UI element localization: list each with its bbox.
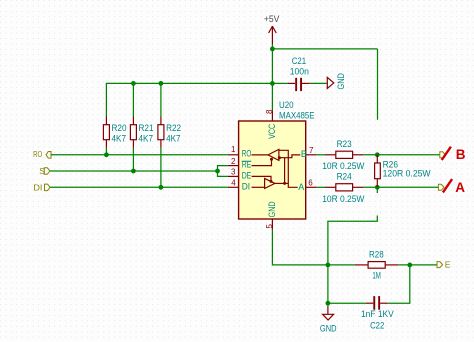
wire E line left segment	[328, 264, 355, 266]
node junction DI R22	[159, 185, 164, 190]
svg-text:VCC: VCC	[267, 124, 277, 139]
wire stub below A junction	[376, 187, 378, 193]
U20 internal B net	[278, 155, 300, 184]
svg-text:C22: C22	[370, 320, 384, 331]
svg-text:R24: R24	[337, 170, 352, 181]
svg-text:DI: DI	[242, 182, 250, 192]
svg-text:120R 0.25W: 120R 0.25W	[383, 167, 431, 178]
U20 internal receiver triangle	[252, 149, 279, 160]
wire S	[50, 170, 218, 172]
hier label DI	[33, 183, 50, 193]
hier label B	[440, 147, 466, 162]
pin 3 DE	[228, 168, 252, 181]
svg-text:U20: U20	[279, 99, 294, 110]
U20 internal RE enable	[252, 158, 274, 166]
svg-text:DE: DE	[242, 171, 252, 181]
svg-text:4K7: 4K7	[166, 133, 181, 144]
wire VCC rail to pullup resistors	[106, 83, 272, 116]
node junction E left	[326, 263, 331, 268]
node junction +5V	[270, 47, 275, 52]
resistor R26	[375, 155, 431, 188]
svg-text:+5V: +5V	[264, 14, 280, 24]
node junction rail R21	[131, 81, 136, 86]
wire C21 right to GND	[309, 82, 327, 84]
wire R21 top stem	[132, 83, 134, 116]
node junction VCC C21	[270, 81, 275, 86]
wire R20 bottom	[105, 148, 107, 155]
svg-text:GND: GND	[320, 322, 337, 333]
svg-text:1nF 1KV: 1nF 1KV	[361, 308, 394, 319]
svg-text:8: 8	[265, 109, 274, 114]
svg-text:2: 2	[231, 157, 236, 166]
svg-text:B: B	[301, 149, 307, 159]
wire R22 top stem	[160, 83, 162, 116]
wire +5V drop right (dangling)	[377, 49, 379, 120]
capacitor C22	[361, 296, 394, 330]
pin 5 GND	[265, 201, 277, 230]
svg-text:C21: C21	[292, 55, 306, 66]
hier label S	[39, 166, 50, 176]
wire +5V vertical down to U20 pin 8	[271, 44, 273, 110]
svg-text:10R 0.25W: 10R 0.25W	[322, 160, 364, 171]
svg-text:B: B	[456, 147, 466, 162]
svg-text:7: 7	[309, 146, 314, 155]
wire RE DE tie	[218, 166, 228, 177]
capacitor C21	[288, 55, 310, 91]
svg-text:1M: 1M	[372, 269, 381, 280]
U20 internal driver triangle	[252, 178, 275, 188]
ground right of C21	[327, 73, 346, 90]
wire R23 to label B	[363, 154, 439, 156]
wire R28 to label E	[398, 264, 437, 266]
resistor R21	[130, 117, 153, 148]
power +5V	[264, 14, 280, 44]
svg-text:GND: GND	[335, 73, 346, 90]
svg-text:A: A	[455, 180, 465, 195]
svg-text:E: E	[445, 260, 451, 270]
svg-text:4: 4	[231, 179, 236, 188]
svg-text:1: 1	[231, 145, 236, 154]
resistor R20	[103, 117, 126, 148]
node junction S tie	[215, 169, 220, 174]
U20 internal DE enable	[252, 176, 273, 183]
node junction rail R22	[159, 81, 164, 86]
resistor R22	[158, 117, 181, 148]
pin 2 RE	[228, 157, 252, 170]
svg-text:10R 0.25W: 10R 0.25W	[322, 193, 364, 204]
node junction C22 left	[326, 301, 331, 306]
node junction S R21	[131, 169, 136, 174]
node junction B R26	[375, 152, 380, 157]
wire R24 to label A	[363, 186, 438, 188]
wire RO	[51, 154, 228, 156]
svg-text:3: 3	[231, 168, 236, 177]
resistor R23	[322, 138, 364, 171]
svg-text:R21: R21	[139, 122, 154, 133]
svg-text:4K7: 4K7	[139, 133, 154, 144]
pin 7 B	[301, 146, 317, 159]
svg-text:R28: R28	[369, 249, 384, 260]
U20 internal A net	[275, 150, 298, 187]
ground bottom	[320, 303, 337, 333]
svg-text:DI: DI	[33, 183, 42, 193]
wire +5V rail right	[272, 48, 377, 50]
svg-text:RO: RO	[242, 148, 252, 158]
wire DI	[50, 186, 228, 188]
node junction A R26	[375, 185, 380, 190]
pin 1 RO	[228, 145, 252, 159]
svg-text:RO: RO	[33, 149, 42, 159]
resistor R24	[322, 170, 364, 204]
wire R21 bottom	[132, 148, 134, 171]
wire GND drop	[327, 265, 329, 303]
hier label E	[437, 260, 451, 270]
wire U20 pin5 to E line	[272, 230, 328, 265]
svg-text:MAX485E: MAX485E	[279, 109, 315, 120]
resistor R28	[355, 249, 398, 281]
hier label RO	[33, 149, 51, 159]
wire step from A area down to E line	[328, 216, 377, 265]
svg-text:6: 6	[308, 179, 313, 188]
svg-text:5: 5	[265, 224, 274, 229]
wire C21 left	[272, 82, 287, 84]
pin 4 DI	[228, 179, 250, 192]
hier label A	[438, 179, 465, 195]
svg-text:R22: R22	[166, 122, 181, 133]
svg-text:A: A	[298, 182, 304, 192]
pin 6 A	[298, 179, 316, 192]
wire pin7 to R23	[317, 154, 325, 156]
node junction E right	[407, 263, 412, 268]
pin 8 VCC	[265, 109, 277, 139]
svg-text:R23: R23	[337, 138, 352, 149]
svg-text:4K7: 4K7	[112, 133, 127, 144]
op-amp U20 body	[239, 99, 315, 219]
wire R22 bottom	[160, 148, 162, 187]
svg-text:100n: 100n	[290, 65, 309, 76]
node junction RO R20	[104, 152, 109, 157]
svg-text:R20: R20	[112, 122, 127, 133]
svg-text:GND: GND	[267, 201, 277, 217]
wire pin6 to R24	[317, 186, 325, 188]
wire C22 left	[328, 302, 366, 304]
wire C22 right riser	[387, 265, 409, 303]
